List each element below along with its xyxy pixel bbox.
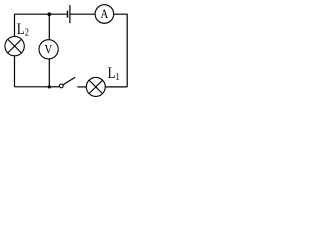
wire bottom-right corner to lamp L1 bbox=[105, 86, 127, 88]
lamp L2 cross bbox=[8, 39, 22, 53]
lamp L1 circle bbox=[86, 77, 105, 96]
ammeter A circle bbox=[95, 5, 114, 24]
wire left side lower (lamp L2 down to bottom corner) bbox=[14, 56, 16, 87]
switch S lever bbox=[63, 77, 75, 85]
wire lamp L1 to switch fixed contact bbox=[77, 86, 86, 88]
node junction top (voltmeter tap) bbox=[48, 12, 52, 16]
lamp L2 circle bbox=[5, 36, 24, 55]
wire ammeter to top-right corner and down right side bbox=[114, 14, 128, 87]
battery cell long plate bbox=[69, 5, 71, 23]
svg-text:A: A bbox=[101, 6, 109, 21]
wire battery to ammeter bbox=[70, 13, 95, 15]
wire voltmeter branch lower bbox=[48, 59, 50, 87]
wire left side upper (corner down to lamp L2) bbox=[14, 14, 16, 36]
battery cell short plate bbox=[67, 11, 69, 18]
switch S pivot circle bbox=[59, 84, 63, 88]
voltmeter circle bbox=[39, 40, 58, 59]
svg-text:V: V bbox=[44, 42, 52, 57]
node junction bottom (voltmeter tap) bbox=[48, 85, 51, 88]
wire top-left to battery bbox=[15, 13, 68, 15]
wire switch to bottom junction bbox=[49, 86, 59, 88]
wire voltmeter branch upper bbox=[48, 14, 50, 40]
wire bottom junction to bottom-left corner bbox=[15, 86, 50, 88]
lamp L1 cross bbox=[89, 80, 102, 93]
